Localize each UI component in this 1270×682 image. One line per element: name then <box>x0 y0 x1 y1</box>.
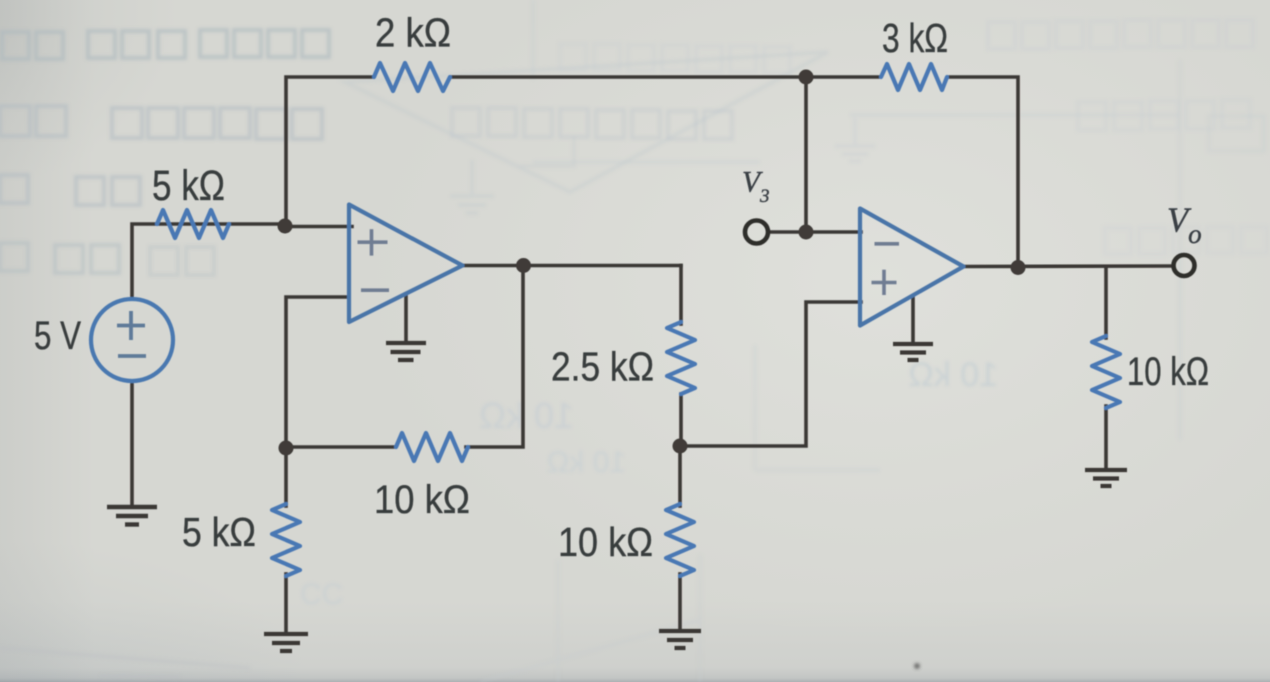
wire op2 output to Vo <box>962 264 1171 268</box>
svg-text:10 kΩ: 10 kΩ <box>547 446 626 479</box>
wire right 10k top lead <box>1104 267 1108 338</box>
wire left 5k top lead <box>284 448 288 506</box>
resistor 5 kOhm input <box>157 210 229 238</box>
ghost hangul row 1 right <box>988 20 1253 49</box>
svg-text:5 kΩ: 5 kΩ <box>182 509 256 555</box>
svg-text:2 kΩ: 2 kΩ <box>375 10 451 56</box>
wire 2.5k top lead <box>679 266 683 325</box>
svg-text:3 kΩ: 3 kΩ <box>882 15 948 61</box>
ground below source <box>107 507 157 525</box>
wire op2 ground stem <box>911 298 915 343</box>
ghost hangul row 3 left <box>0 175 140 205</box>
ghost hangul row 2 middle faint <box>452 108 732 139</box>
resistor 10 kOhm op1 feedback <box>396 433 468 461</box>
node at op1 output <box>516 258 531 273</box>
speck dot <box>914 663 920 669</box>
wire top right of 3k to corner down <box>950 77 1018 267</box>
resistor 10 kOhm output <box>1092 336 1120 408</box>
ghost hangul row 2 right <box>1078 100 1250 130</box>
svg-text:10 kΩ: 10 kΩ <box>558 519 653 565</box>
node at V3 input <box>799 225 814 240</box>
wire bottom bus left (node to 10k) <box>286 445 394 449</box>
svg-text:5 kΩ: 5 kΩ <box>152 162 225 210</box>
node at op1 minus bus <box>279 441 294 456</box>
wire left 5k bottom lead <box>284 574 288 633</box>
terminal Vo <box>1174 255 1195 276</box>
resistor 3 kOhm feedback <box>881 64 947 90</box>
voltage source 5V <box>91 299 173 381</box>
ghost hangul right mid <box>1105 227 1267 254</box>
resistor 2 kOhm feedback <box>374 63 450 91</box>
ghost bottom-left diagonal <box>0 648 250 677</box>
ground below right 10k <box>1085 470 1127 486</box>
wire op1 ground stem <box>404 294 408 341</box>
resistor 10 kOhm mid <box>666 504 694 576</box>
ground below left 5k <box>264 634 308 651</box>
ghost hangul row 4 left <box>0 243 214 275</box>
wire op1 minus input <box>286 297 349 448</box>
svg-text:10 kΩ: 10 kΩ <box>908 356 998 394</box>
svg-text:2.5 kΩ: 2.5 kΩ <box>551 344 654 390</box>
node at 2.5k/10k junction <box>673 439 688 454</box>
svg-text:CC: CC <box>300 578 343 611</box>
ground op-amp U2 <box>893 344 933 360</box>
wire mid 10k top lead <box>678 446 682 506</box>
node at op1 plus input <box>278 219 293 234</box>
wire right 10k bottom lead <box>1104 406 1108 469</box>
ghost wires <box>480 0 1264 682</box>
ground op-amp U1 <box>386 343 426 360</box>
ghost mirrored 10k text 3 <box>908 356 998 394</box>
wire left vertical to top <box>286 77 372 226</box>
op-amp U2 <box>860 209 964 326</box>
ground below mid 10k <box>659 631 701 648</box>
wire source bottom lead <box>130 381 134 506</box>
op-amp U1 <box>349 205 463 323</box>
wire op1 output <box>460 264 681 268</box>
ghost mirrored triangle <box>345 52 828 192</box>
wire mid node to op2 plus input <box>680 302 861 446</box>
resistor 2.5 kOhm <box>667 322 695 394</box>
wire op1 plus input <box>286 225 352 229</box>
svg-text:5 V: 5 V <box>34 314 81 358</box>
node at op2 output <box>1011 260 1026 275</box>
terminal V3 <box>745 221 768 244</box>
wire top between 2k and 3k <box>452 75 878 79</box>
svg-text:10 kΩ: 10 kΩ <box>1127 350 1209 394</box>
wire V3 node up to top wire <box>804 77 808 232</box>
ghost ground 2 <box>835 118 875 161</box>
wire 2.5k bottom lead <box>679 394 683 446</box>
ghost mirrored 10k text 1 <box>479 395 574 436</box>
ghost mirrored 10k text 2 <box>547 446 626 479</box>
svg-text:10 kΩ: 10 kΩ <box>479 395 574 436</box>
wire source top lead <box>132 224 286 299</box>
wire 10k to vertical riser <box>466 265 523 447</box>
ghost ground 1 <box>450 160 494 213</box>
ghost hangul row 2 left <box>0 106 322 139</box>
node on top wire at 806 <box>799 70 814 85</box>
wire V3 terminal to op2 minus input <box>770 230 861 234</box>
ghost hangul row 1 left <box>2 30 329 59</box>
svg-text:10 kΩ: 10 kΩ <box>374 478 470 522</box>
resistor 5 kOhm bottom <box>272 504 300 576</box>
wire mid 10k bottom lead <box>678 574 682 630</box>
